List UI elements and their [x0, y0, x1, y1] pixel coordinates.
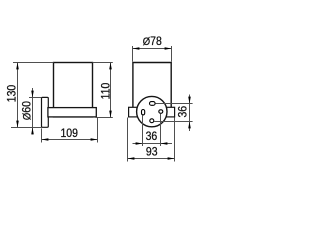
extension line plate bottom left [11, 127, 42, 129]
svg-text:110: 110 [100, 83, 113, 100]
front view left tab [129, 107, 138, 117]
dimension line O78 [133, 48, 172, 50]
svg-text:93: 93 [146, 146, 158, 159]
extension line 36h left [142, 115, 144, 146]
arrow 110 bottom [109, 111, 112, 118]
arrow 36h left (outside, pointing right) [136, 142, 143, 145]
dimension line 110 [110, 63, 112, 118]
extension line 109 right [97, 118, 99, 143]
front view cylinder [133, 63, 171, 108]
extension line 93 left [127, 118, 129, 162]
extension line cup top left [13, 62, 54, 64]
extension line plate top [29, 97, 42, 99]
screw slot right [159, 110, 163, 114]
arrow O60 bottom (outside, pointing up) [31, 128, 34, 135]
dimension line 36v [189, 95, 191, 132]
arrow O78 left [133, 47, 140, 50]
arrow 109 right [91, 138, 98, 141]
svg-text:36: 36 [177, 106, 190, 118]
side view cup (glass, side) [54, 63, 93, 117]
extension line cup top right [93, 62, 113, 64]
extension line O78 right [171, 46, 173, 62]
dimension line 93 [128, 158, 175, 160]
dimension line 36h tails [133, 143, 173, 145]
extension line 109 left [41, 128, 43, 142]
extension line 93 right [174, 118, 176, 162]
extension line 36h right [160, 114, 162, 146]
svg-text:109: 109 [60, 128, 77, 141]
arrow 36v top (outside, pointing down) [188, 97, 191, 104]
arrow 36v bottom (outside, pointing up) [188, 122, 191, 129]
extension line 36v top [155, 103, 192, 105]
side view wall plate [42, 97, 49, 127]
arrow 110 top [109, 63, 112, 70]
svg-text:Ø60: Ø60 [21, 101, 34, 120]
svg-text:Ø78: Ø78 [143, 36, 162, 49]
front view mounting circle [137, 96, 167, 126]
arrow 93 left [128, 157, 135, 160]
extension line O78 left [132, 46, 134, 62]
arrow 109 left [42, 138, 49, 141]
screw slot bottom [150, 119, 154, 123]
extension line 36v bottom [154, 121, 193, 123]
side view holder ring band [48, 108, 96, 117]
arrow O78 right [165, 47, 172, 50]
front view right tab [166, 107, 174, 117]
screw slot left [142, 110, 145, 115]
dimension line 109 [42, 139, 98, 141]
dimension line O60 [32, 88, 34, 135]
arrow 130 top [16, 63, 19, 70]
screw slot top [150, 102, 156, 106]
extension line cup bottom right [96, 117, 113, 119]
arrow 130 bottom [16, 121, 19, 128]
dimension line 130 [17, 63, 19, 128]
arrow O60 top (outside, pointing down) [31, 91, 34, 98]
arrow 36h right (outside, pointing left) [161, 142, 168, 145]
svg-text:130: 130 [6, 85, 19, 102]
svg-text:36: 36 [146, 130, 158, 143]
arrow 93 right [168, 157, 175, 160]
